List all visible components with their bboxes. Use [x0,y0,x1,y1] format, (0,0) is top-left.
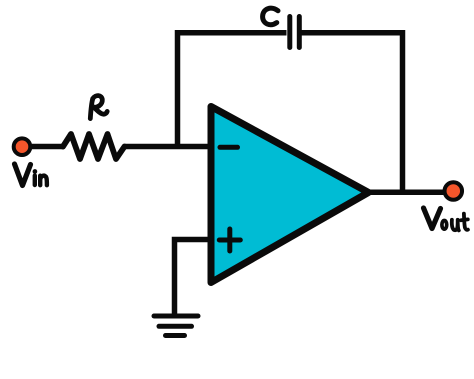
terminal Vout [445,182,463,200]
label R (resistor value label) [90,96,107,119]
capacitor C right plate [297,17,302,48]
wire: resistor to op-amp inverting input [125,144,209,150]
label C (capacitor value label) [263,8,278,24]
wire: non-inverting input to ground [175,240,209,316]
wire: feedback loop left (up from inverting input node to capacitor) [178,33,287,148]
wire: Vin to resistor [31,144,64,150]
op-amp U1 [211,107,369,283]
resistor R [63,134,125,159]
ground symbol [154,316,198,336]
wire: op-amp output to Vout [367,190,444,196]
label Vin [15,164,47,186]
capacitor C left plate [287,17,292,48]
op-amp inverting input minus sign [220,145,238,150]
wire: feedback loop right (from capacitor down to output node) [301,33,403,193]
terminal Vin [14,138,31,155]
op-amp non-inverting input plus sign [219,229,240,251]
label Vout [424,208,468,230]
